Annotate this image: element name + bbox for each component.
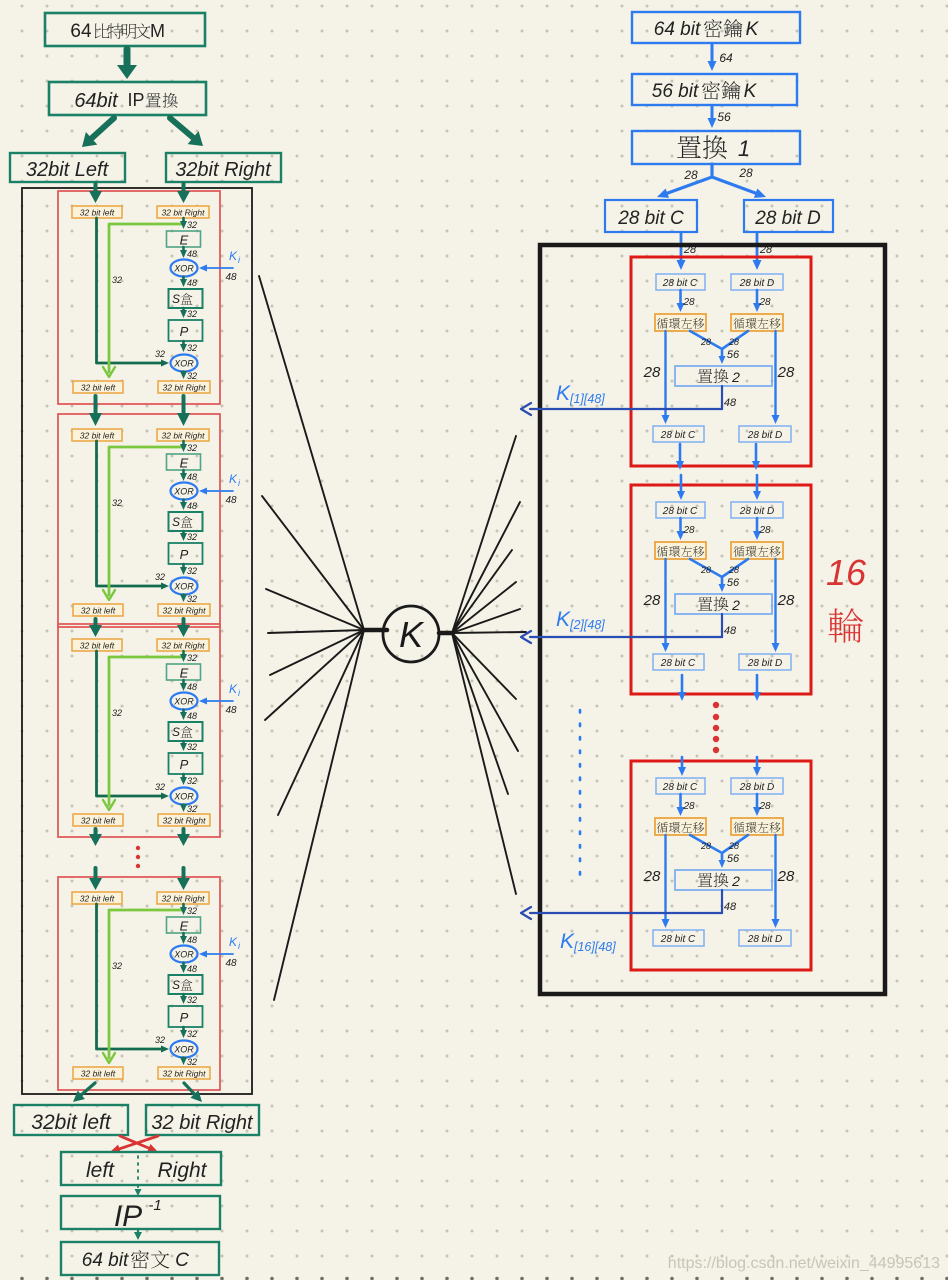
box 64-bit plaintext M [45,13,205,46]
arrow L round2-3 left [89,619,102,637]
arrow L round3 exit left [89,829,102,846]
svg-text:56: 56 [717,110,731,124]
left fan lines [259,276,364,1000]
label 28 split-right [738,166,753,180]
svg-text:56 bit: 56 bit [652,81,699,102]
svg-text:K: K [746,19,760,40]
bottom edge dots [20,1277,948,1280]
arrow to ciphertext [134,1229,142,1240]
svg-text:K: K [560,930,575,953]
svg-text:28 bit C: 28 bit C [617,208,684,229]
svg-text:16: 16 [826,552,867,593]
arrow 64K to 56K [708,44,717,71]
svg-text:32bit left: 32bit left [31,1111,112,1134]
arrow D into keyround1 [753,233,762,270]
svg-text:32bit Left: 32bit Left [26,159,110,181]
label 56 [717,110,731,124]
box permutation 1 [632,131,800,164]
left Feistel round 3 [58,624,241,837]
arrow round4 to 32bit Right [184,1083,202,1102]
arrow IP to Right [170,118,203,146]
svg-text:64 bit: 64 bit [654,19,701,40]
key round 3 [521,761,811,970]
arrow L round1-2 right [177,396,190,426]
arrow into round1 left [89,184,102,203]
label 28 split-left [683,168,698,182]
arrow M to IP [117,49,137,79]
svg-text:C: C [175,1250,189,1271]
svg-text:left: left [86,1159,115,1182]
watermark [668,1255,940,1272]
svg-text:M: M [150,21,165,41]
red dots right [713,702,719,753]
svg-text:64bit: 64bit [74,90,119,112]
blue dotted line [579,710,582,884]
arrow into round1 right [177,184,190,203]
split stem [710,164,713,177]
svg-text:https://blog.csdn.net/weixin_4: https://blog.csdn.net/weixin_44995613 [668,1255,940,1272]
box 32bit Right [166,153,281,182]
svg-text:K: K [556,382,571,405]
box 64 bit ciphertext C [61,1242,219,1275]
arrow C into keyround1 [677,233,686,270]
left Feistel round 2 [58,414,241,627]
left Feistel round 4 [58,877,241,1090]
svg-text:28: 28 [738,166,753,180]
right outer box [540,245,885,994]
box 32bit Left [10,153,125,182]
dotted arrow to IP inverse [135,1185,142,1196]
red cross arrow 2 [110,1136,158,1153]
svg-text:Right: Right [157,1159,207,1182]
arrow keyround1-2 D a [752,444,760,470]
svg-text:K: K [399,614,425,655]
svg-text:[1][48]: [1][48] [569,392,605,406]
label K[1][48] [556,382,605,406]
box 28 bit C [605,200,697,232]
arrow L round3 exit right [177,829,190,846]
box 32bit Right final [146,1105,259,1135]
box 32bit left final [14,1105,128,1135]
svg-text:64: 64 [719,51,733,65]
arrow round4 to 32bit left [73,1083,95,1102]
key round 1 [521,257,811,466]
arrow keyround1-2 C b [677,475,685,500]
svg-text:64: 64 [70,21,92,42]
arrow L round1-2 left [89,396,102,426]
arrow split to D [712,177,766,198]
svg-text:IP: IP [127,90,144,110]
label 64 [719,51,733,65]
box 64 bit key K [632,12,800,43]
svg-text:28 bit D: 28 bit D [754,208,821,229]
K circle [383,606,439,662]
K hub left tick [364,628,387,633]
svg-text:[2][48]: [2][48] [569,618,605,632]
arrow IP to Left [82,118,114,147]
label 28 [759,244,773,256]
svg-text:K: K [744,81,758,102]
arrow L round2-3 right [177,619,190,637]
key round 2 [521,485,811,694]
label 16 rounds [826,552,867,643]
label 28 [683,244,697,256]
arrow L round4 entry left [89,868,102,890]
box 28 bit D [744,200,833,232]
arrow 56K to PC1 [708,106,717,128]
arrow keyround3 entry C [678,757,686,776]
arrow keyround3 entry D [753,757,761,776]
arrow keyround2 exit C [678,675,686,701]
left Feistel round 1 [58,191,241,404]
K hub right tick [439,631,453,636]
box left-Right swap [61,1152,221,1185]
svg-text:-1: -1 [148,1197,161,1214]
label K[2][48] [556,608,605,632]
red cross arrow 1 [120,1136,158,1152]
arrow keyround1-2 C a [676,444,684,470]
svg-text:32 bit Right: 32 bit Right [151,1112,254,1134]
arrow L round4 entry right [177,868,190,890]
arrow split to C [657,177,712,198]
svg-text:64 bit: 64 bit [82,1250,129,1271]
label K[16][48] [560,930,616,954]
arrow keyround2 exit D [753,675,761,701]
box 56 bit key K [632,74,797,105]
right fan lines [452,436,526,894]
svg-text:[16][48]: [16][48] [573,940,616,954]
svg-text:28: 28 [683,168,698,182]
svg-text:K: K [556,608,571,631]
red dots left [136,846,140,868]
box IP inverse [61,1196,220,1233]
svg-text:1: 1 [738,136,750,161]
box 64bit IP permutation [49,82,206,115]
arrow keyround1-2 D b [753,475,761,500]
svg-text:32bit Right: 32bit Right [175,159,272,181]
left outer box [22,188,252,1094]
